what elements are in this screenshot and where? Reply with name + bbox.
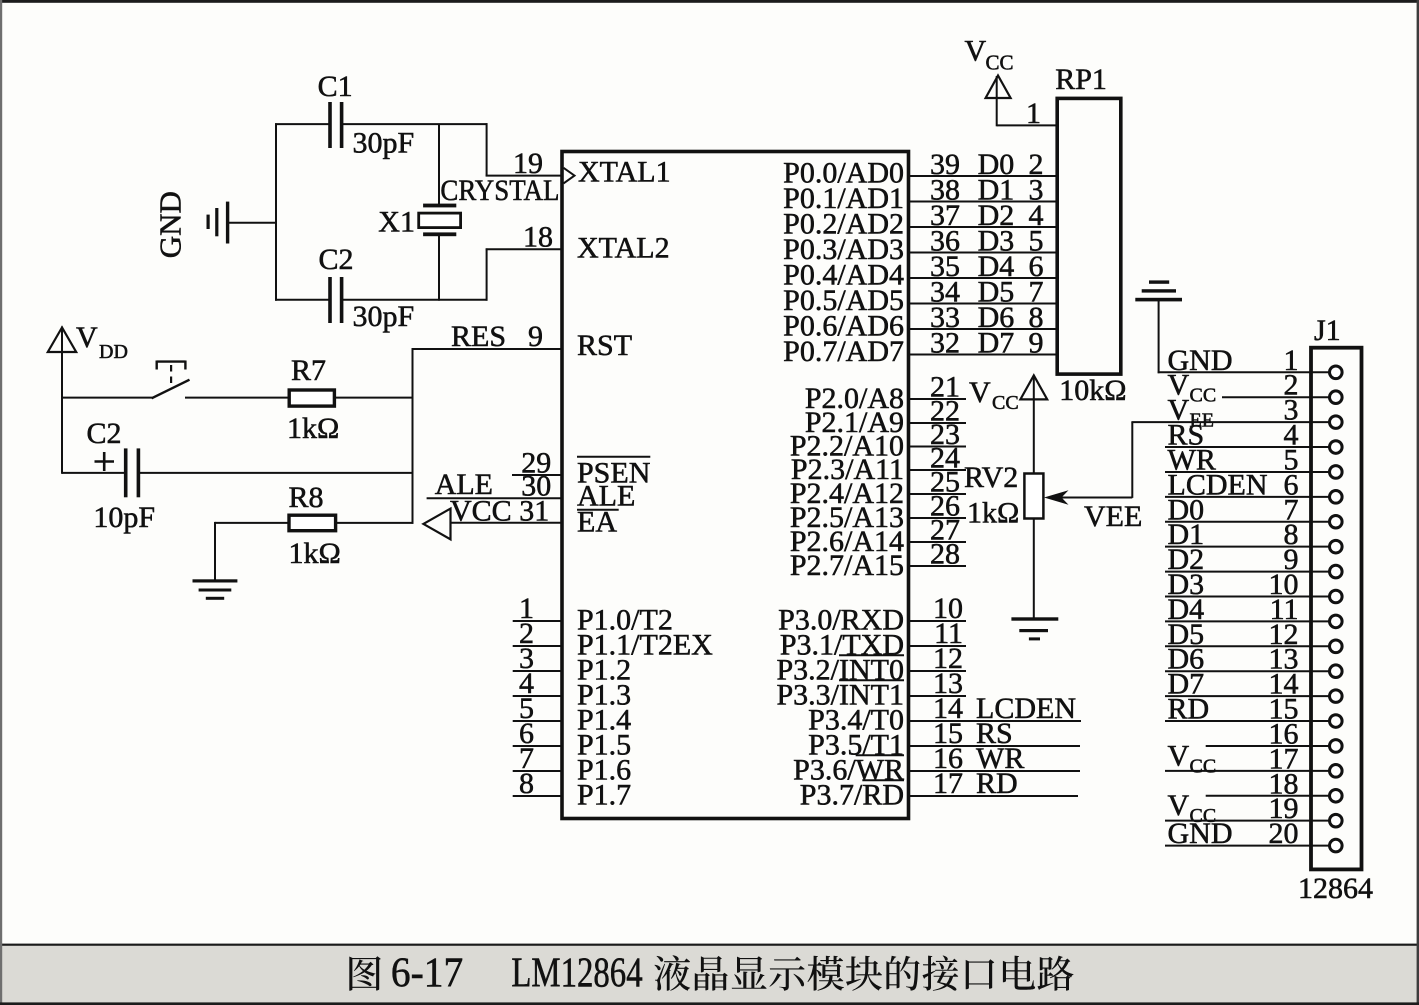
ground (crystal bias, rotated left) [207,202,230,244]
wire: J1 pin 18 [1206,795,1331,797]
svg-text:12864: 12864 [1298,872,1373,905]
svg-text:1kΩ: 1kΩ [967,497,1019,530]
wire: pin 8 stub (P1.7) [513,795,562,797]
wire: pin 19 to XTAL1 [486,175,562,177]
svg-text:V: V [965,35,987,68]
wire: J1 pin 19 (VCC net) [1165,820,1331,822]
pin 14 contact circle [1330,690,1343,703]
caption band [2,946,1417,1003]
wire: J1 pin 3 (VEE net) [1131,421,1330,423]
wire: pin 3 stub (P1.2) [513,670,562,672]
svg-text:GND: GND [153,191,188,258]
ground (reset divider) [193,579,238,600]
svg-text:V: V [969,376,991,409]
wire: J1 pin 9 (D2 net) [1165,571,1331,573]
wire: J1 pin 17 (VCC net) [1165,770,1331,772]
capacitor C1 [328,102,343,148]
wire: right vertical to pin 19 [486,123,488,176]
wire: pin 38 P0.1 to RP1 pin 3 [909,201,1059,203]
svg-text:10pF: 10pF [93,501,155,534]
wire: top wire from C1 to crystal net (XTAL1) [275,123,329,125]
wire: stub from GND symbol to crystal loop [228,222,277,224]
wire: pin 14 stub [909,720,1082,722]
wire: switch to R7 [185,397,290,399]
wire: RES net to RST pin 9 [412,348,562,350]
wire: pin 21 stub [909,398,967,400]
capacitor C2 (30pF) [328,277,343,323]
power symbol VDD [48,327,76,399]
svg-text:P1.7: P1.7 [577,779,631,812]
svg-text:6-17: 6-17 [391,951,463,997]
wire: pin 2 stub (P1.1) [513,645,562,647]
svg-text:XTAL1: XTAL1 [578,156,671,189]
wire: pin 10 stub [909,620,967,622]
svg-text:GND: GND [1168,817,1233,850]
wire: J1 pin 15 (RD net) [1165,720,1331,722]
wire: J1 pin 5 (WR net) [1165,471,1331,473]
svg-text:RD: RD [976,767,1018,800]
pin 11 contact circle [1330,615,1343,628]
svg-text:J1: J1 [1314,314,1341,347]
wire: R8 to reset node [335,522,413,524]
wire: pin 35 P0.4 to RP1 pin 6 [909,277,1059,279]
wire: VDD to switch [62,397,153,399]
power symbol VCC (RV2) [969,375,1047,414]
wire: pin 26 stub [909,517,967,519]
wire: J1 pin 13 (D6 net) [1165,670,1331,672]
wire: bottom wire from C2 to crystal net (XTAL2) [275,299,329,301]
resistor network RP1 [1057,98,1121,374]
ground (RV2) [1011,617,1058,640]
wire: J1 pin 8 (D1 net) [1165,546,1331,548]
pin 4 contact circle [1330,441,1343,454]
wire: J1 pin 10 (D3 net) [1165,595,1331,597]
svg-text:LM12864: LM12864 [511,951,642,997]
svg-text:C2: C2 [319,243,354,276]
wire: VEE net vertical [1131,422,1133,498]
pin 16 contact circle [1330,740,1343,753]
wire: J1 pin 11 (D4 net) [1165,620,1331,622]
svg-text:CC: CC [992,392,1019,414]
svg-text:D7: D7 [978,327,1015,360]
wire: pin 4 stub (P1.3) [513,695,562,697]
wire: pin 5 stub (P1.4) [513,720,562,722]
wire: pin 15 stub [909,745,1081,747]
wire: J1 pin 2 (VCC net) [1222,396,1331,398]
ground (J1 GND, inverted) [1135,280,1182,373]
pushbutton switch [152,361,190,399]
pin 18 contact circle [1330,789,1343,802]
svg-text:CC: CC [1190,755,1217,777]
capacitor C2 (10pF, electrolytic) [124,448,140,497]
caption divider line [0,944,1419,946]
wire: J1 pin 12 (D5 net) [1165,645,1331,647]
svg-text:X1: X1 [378,206,415,239]
svg-text:19: 19 [513,147,543,180]
pin 1 contact circle [1330,366,1343,379]
pin 10 contact circle [1330,590,1343,603]
wire: pin 6 stub (P1.5) [513,745,562,747]
wire: ALE net to pin 30 [427,497,562,499]
wire: pin 17 stub [909,795,1079,797]
svg-text:V: V [1168,739,1190,772]
svg-text:RP1: RP1 [1055,63,1107,96]
wire: left vertical wire of crystal loop [275,123,277,301]
wire: pin 16 stub [909,770,1081,772]
wire: pin 7 stub (P1.6) [513,770,562,772]
svg-text:C2: C2 [87,417,122,450]
wire: R8 ground drop [214,522,216,581]
potentiometer RV2 [1024,474,1043,519]
wire: pin 36 P0.3 to RP1 pin 5 [909,252,1059,254]
pin 13 contact circle [1330,665,1343,678]
svg-text:RES: RES [451,320,506,353]
svg-text:P3.7/RD: P3.7/RD [800,779,904,812]
wire: pin 12 stub [909,670,967,672]
wire: pin 18 to XTAL2 [486,248,562,250]
svg-text:CC: CC [986,51,1014,75]
svg-text:32: 32 [930,327,960,360]
resistor R7 [289,390,334,406]
svg-text:C1: C1 [318,70,353,103]
svg-text:RST: RST [577,329,632,362]
pin 12 contact circle [1330,640,1343,653]
wire: J1 pin 16 [1206,745,1331,747]
pin 8 contact circle [1330,540,1343,553]
wire: pin 24 stub [909,469,967,471]
pin 5 contact circle [1330,466,1343,479]
crystal X1 [419,124,461,301]
overline on INT1 [839,679,904,681]
wire: J1 pin 14 (D7 net) [1165,695,1331,697]
wire: J1 pin 1 (GND net) [1158,371,1331,373]
wire: ground to R8 [215,522,290,524]
wire: VCC to RP1 pin 1 [997,124,1058,126]
pin 19 contact circle [1330,814,1343,827]
pin 9 contact circle [1330,565,1343,578]
svg-text:9: 9 [528,320,543,353]
pin 15 contact circle [1330,715,1343,728]
resistor R8 [289,515,336,531]
wire: C2 to reset node [140,472,413,474]
wire: right vertical to pin 18 [486,248,488,300]
svg-text:P2.7/A15: P2.7/A15 [790,549,904,582]
wire: J1 pin 4 (RS net) [1165,446,1331,448]
svg-text:1: 1 [1026,97,1041,130]
svg-text:30pF: 30pF [353,300,415,333]
svg-text:VEE: VEE [1084,500,1142,533]
svg-text:20: 20 [1269,817,1299,850]
wire: VDD down to C2 [61,397,63,474]
pin 3 contact circle [1330,416,1343,429]
connector J1 body [1311,348,1362,870]
wire: pin 27 stub [909,541,967,543]
svg-text:9: 9 [1029,327,1044,360]
svg-text:1kΩ: 1kΩ [287,412,339,445]
svg-text:8: 8 [519,767,534,800]
svg-text:V: V [76,321,98,354]
wire: pin 37 P0.2 to RP1 pin 4 [909,226,1059,228]
wire: pin 23 stub [909,446,967,448]
svg-text:28: 28 [930,538,960,571]
svg-text:P0.7/AD7: P0.7/AD7 [783,335,904,368]
wire: pin 29 PSEN stub [512,474,562,476]
svg-text:1kΩ: 1kΩ [289,537,341,570]
svg-text:10kΩ: 10kΩ [1059,374,1126,407]
svg-text:DD: DD [99,341,128,363]
overline on INT0 [839,654,904,656]
polarity + mark [95,452,115,471]
svg-text:R8: R8 [289,481,324,514]
wire: VCC symbol to pin 31 EA [450,522,563,524]
clock input marker at XTAL1 [564,168,575,184]
pin 6 contact circle [1330,491,1343,504]
pin 20 contact circle [1330,839,1343,852]
power symbol VCC (RP1) [965,35,1014,127]
wire: VCC down to RV2 [1033,375,1035,474]
wire: R7 to reset node [334,397,413,399]
wire: J1 pin 6 (LCDEN net) [1165,496,1331,498]
svg-text:30pF: 30pF [353,127,415,160]
svg-text:R7: R7 [291,354,326,387]
svg-text:17: 17 [933,767,963,800]
overline on WR [856,754,904,756]
pin 17 contact circle [1330,765,1343,778]
wire: VDD branch to C2 (10pF) [62,472,125,474]
pin 7 contact circle [1330,515,1343,528]
wire: pin 22 stub [909,422,967,424]
pin 2 contact circle [1330,391,1343,404]
svg-text:18: 18 [523,221,553,254]
wiper arrow from VEE net [1044,490,1132,504]
wire: reset node vertical [412,348,414,524]
wire: pin 11 stub [909,645,967,647]
wire: J1 pin 7 (D0 net) [1165,521,1331,523]
svg-text:RV2: RV2 [964,461,1018,494]
wire: pin 13 stub [909,695,967,697]
MCU IC box (8051) [562,152,909,819]
wire: pin 28 stub [909,565,967,567]
svg-text:CC: CC [1190,385,1217,407]
overline on RD [862,779,904,781]
caption text: [349,951,1073,997]
wire: RV2 to ground [1033,518,1035,619]
wire: pin 32 P0.7 to RP1 pin 9 [909,354,1059,356]
wire: pin 39 P0.0 to RP1 pin 2 [909,175,1059,177]
wire: pin 1 stub (P1.0) [513,620,562,622]
wire: pin 34 P0.5 to RP1 pin 7 [909,303,1059,305]
power symbol VCC (EA pin, left-pointing) [423,509,450,540]
svg-text:XTAL2: XTAL2 [577,232,670,265]
wire: pin 33 P0.6 to RP1 pin 8 [909,328,1059,330]
wire: J1 pin 20 (GND net) [1165,845,1331,847]
svg-text:RD: RD [1168,693,1210,726]
wire: pin 25 stub [909,493,967,495]
